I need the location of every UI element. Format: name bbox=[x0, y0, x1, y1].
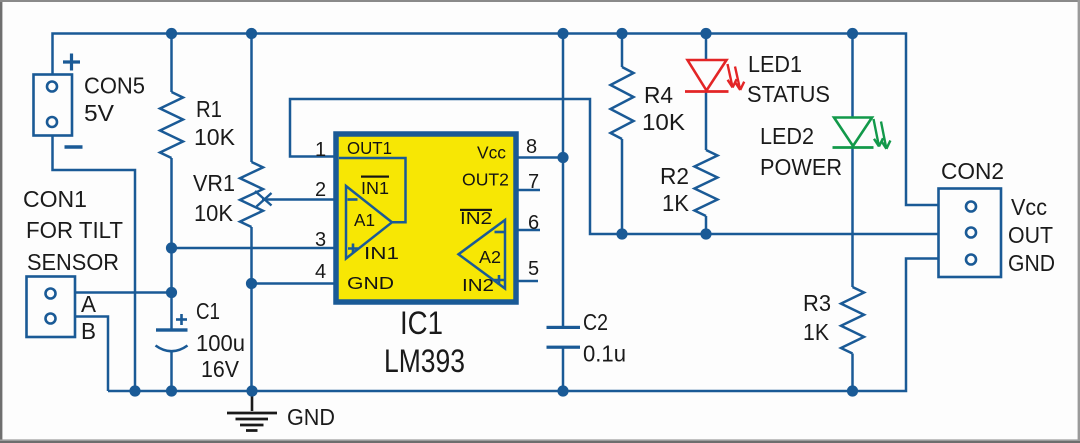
svg-text:5V: 5V bbox=[84, 100, 115, 126]
potentiometer VR1 10K bbox=[250, 34, 253, 163]
svg-text:SENSOR: SENSOR bbox=[27, 249, 119, 275]
wire: pin3 non-inverting input from R1/VR1 divider bbox=[172, 247, 347, 250]
junction CON5 minus / ground rail bbox=[129, 385, 140, 396]
wire: OUT1 pin1 route to LEDs node and CON2 OUT bbox=[290, 99, 939, 234]
svg-text:R4: R4 bbox=[644, 82, 673, 108]
svg-text:VR1: VR1 bbox=[193, 170, 235, 196]
svg-text:R3: R3 bbox=[803, 290, 831, 316]
node A tilt sensor bbox=[166, 287, 177, 298]
junction VR1 bottom / pin4 bbox=[246, 278, 257, 289]
junction LED1 / +5V rail bbox=[700, 28, 711, 39]
A1 output internal route to pin1 bbox=[339, 158, 406, 222]
connector CON5 5V bbox=[34, 75, 73, 136]
junction R1 / +5V rail bbox=[166, 28, 177, 39]
svg-text:6: 6 bbox=[528, 212, 539, 234]
VR1 wiper arrow bbox=[255, 191, 272, 206]
svg-text:GND: GND bbox=[1008, 250, 1055, 276]
svg-text:CON5: CON5 bbox=[84, 73, 145, 99]
wire: +5V top rail from CON5 to CON2 Vcc bbox=[53, 34, 939, 206]
junction LED2 / +5V rail bbox=[847, 28, 858, 39]
capacitor C2 0.1u bbox=[547, 326, 581, 329]
svg-text:100u: 100u bbox=[196, 330, 245, 356]
op-amp A2 bbox=[459, 220, 506, 289]
svg-text:FOR TILT: FOR TILT bbox=[26, 217, 123, 243]
svg-text:A2: A2 bbox=[479, 247, 501, 267]
svg-text:IC1: IC1 bbox=[400, 305, 443, 341]
svg-text:GND: GND bbox=[347, 273, 394, 293]
op-amp comparator IC1 LM393 body bbox=[336, 134, 516, 302]
svg-text:LED1: LED1 bbox=[748, 51, 802, 77]
resistor R1 10K bbox=[170, 34, 173, 93]
svg-text:0.1u: 0.1u bbox=[583, 341, 626, 367]
svg-text:LM393: LM393 bbox=[384, 343, 465, 379]
junction R2 / OUT node bbox=[700, 228, 711, 239]
svg-text:CON1: CON1 bbox=[23, 186, 87, 212]
svg-text:IN1: IN1 bbox=[364, 243, 399, 263]
junction R1 bottom / pin3 bbox=[166, 242, 177, 253]
svg-text:Vcc: Vcc bbox=[477, 143, 506, 163]
resistor R4 10K bbox=[621, 34, 624, 68]
svg-text:GND: GND bbox=[287, 404, 335, 430]
svg-text:IN1: IN1 bbox=[361, 178, 389, 198]
svg-text:7: 7 bbox=[528, 171, 539, 193]
svg-text:3: 3 bbox=[315, 229, 326, 251]
wire: pin2 inverting input from VR1 wiper bbox=[262, 198, 346, 201]
capacitor C1 100u 16V electrolytic bbox=[156, 328, 188, 331]
svg-text:10K: 10K bbox=[642, 109, 686, 135]
border frame bbox=[0, 0, 2, 443]
wire: Vcc vertical to C2 bbox=[562, 34, 565, 328]
svg-text:8: 8 bbox=[526, 136, 537, 158]
wire: CON5 minus to ground rail bbox=[53, 136, 136, 392]
connector CON2 output bbox=[939, 189, 1002, 278]
CON5 minus bbox=[65, 145, 83, 148]
wire: pin5 stub bbox=[505, 280, 538, 283]
svg-text:10K: 10K bbox=[194, 200, 234, 226]
LED1 red status bbox=[705, 34, 708, 61]
svg-text:C2: C2 bbox=[583, 309, 608, 335]
LED1 arrows bbox=[728, 64, 737, 88]
CON5 plus bbox=[63, 54, 80, 71]
svg-text:10K: 10K bbox=[194, 124, 236, 150]
svg-text:1: 1 bbox=[315, 139, 326, 161]
junction R4 / OUT node bbox=[616, 228, 627, 239]
resistor R2 1K bbox=[705, 91, 708, 150]
A1 plus bbox=[348, 244, 358, 254]
junction C1 / ground rail bbox=[166, 385, 177, 396]
svg-text:OUT1: OUT1 bbox=[347, 138, 392, 158]
svg-text:R1: R1 bbox=[196, 96, 222, 122]
wire: pin4 GND bbox=[252, 282, 341, 285]
ground bbox=[251, 391, 254, 411]
svg-text:LED2: LED2 bbox=[760, 123, 814, 149]
svg-text:4: 4 bbox=[315, 261, 326, 283]
LED2 green power bbox=[851, 34, 854, 118]
wire: CON1 pin A bbox=[75, 291, 172, 294]
wire: CON1 pin B to ground rail bbox=[75, 317, 108, 392]
A2 plus bbox=[494, 275, 504, 285]
svg-text:OUT: OUT bbox=[1008, 222, 1053, 248]
junction pin8 Vcc bbox=[557, 152, 568, 163]
svg-text:A: A bbox=[81, 291, 97, 317]
svg-text:CON2: CON2 bbox=[941, 158, 1004, 184]
A1 minus bbox=[348, 198, 358, 201]
junction Vcc line / +5V rail bbox=[557, 28, 568, 39]
junction ground symbol / ground rail bbox=[246, 385, 257, 396]
LED2 arrows bbox=[874, 119, 884, 147]
junction C2 / ground rail bbox=[557, 385, 568, 396]
svg-text:1K: 1K bbox=[662, 190, 690, 216]
C1 plus sign bbox=[176, 318, 187, 321]
svg-text:OUT2: OUT2 bbox=[462, 170, 509, 190]
svg-text:2: 2 bbox=[315, 179, 326, 201]
junction R3 / ground rail bbox=[847, 385, 858, 396]
resistor R3 1K bbox=[851, 148, 854, 288]
svg-text:Vcc: Vcc bbox=[1011, 194, 1047, 220]
A2 minus bbox=[495, 231, 505, 234]
wire: pin6 stub bbox=[505, 229, 540, 232]
svg-text:C1: C1 bbox=[196, 298, 220, 324]
junction R4 / +5V rail bbox=[616, 28, 627, 39]
svg-text:1K: 1K bbox=[803, 319, 830, 345]
svg-text:STATUS: STATUS bbox=[747, 81, 830, 107]
connector CON1 tilt sensor bbox=[27, 277, 76, 338]
svg-text:5: 5 bbox=[528, 258, 539, 280]
svg-text:POWER: POWER bbox=[760, 154, 842, 180]
svg-text:R2: R2 bbox=[660, 163, 689, 189]
op-amp A1 bbox=[346, 186, 392, 259]
junction VR1 / +5V rail bbox=[246, 28, 257, 39]
wire: ground bottom rail into CON2 GND bbox=[108, 259, 939, 392]
wire: pin7 OUT2 with internal route bbox=[445, 190, 540, 254]
svg-text:IN2: IN2 bbox=[462, 275, 494, 295]
wire: pin8 Vcc stub bbox=[516, 156, 563, 159]
svg-text:B: B bbox=[81, 318, 96, 344]
svg-text:A1: A1 bbox=[354, 210, 375, 230]
svg-text:16V: 16V bbox=[201, 356, 240, 382]
